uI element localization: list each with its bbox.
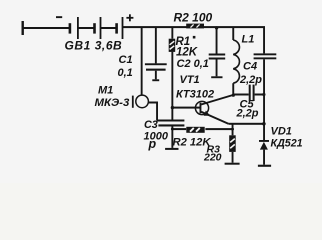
resistor R1 lead top — [171, 27, 173, 39]
svg-text:p: p — [148, 137, 157, 151]
svg-text:МКЭ-3: МКЭ-3 — [95, 97, 130, 109]
battery GB1 cell1 — [69, 23, 72, 33]
capacitor C5 — [249, 85, 251, 101]
ground bar VD1 — [258, 165, 271, 167]
node junction C3 R2 — [171, 128, 174, 131]
capacitor C2 — [209, 54, 226, 56]
wire top supply rail — [123, 26, 265, 28]
wire base to C3 — [171, 108, 173, 119]
capacitor C2 feed — [216, 27, 218, 54]
svg-text:М1: М1 — [98, 85, 113, 97]
svg-text:0,1: 0,1 — [118, 67, 133, 79]
capacitor C4 — [254, 53, 277, 55]
wire battery minus lead — [22, 27, 69, 29]
wire between cells — [101, 27, 116, 29]
svg-text:VT1: VT1 — [180, 74, 200, 86]
wire C3 bottom lead — [171, 127, 173, 148]
svg-text:GB1 3,6В: GB1 3,6В — [65, 39, 123, 53]
node base junction — [171, 106, 174, 109]
wire C2 ground stub — [216, 60, 218, 77]
svg-text:КТ3102: КТ3102 — [176, 88, 214, 100]
wire R2 12K right — [205, 128, 233, 130]
capacitor C1 feed — [155, 27, 157, 63]
svg-text:220: 220 — [203, 151, 222, 163]
wire microphone feed drop — [141, 27, 143, 95]
inductor L1 feed — [232, 27, 234, 40]
node minus polarity label — [56, 16, 62, 18]
resistor R1 — [169, 39, 176, 52]
svg-text:2,2p: 2,2p — [236, 108, 259, 120]
node junction C5 right column — [262, 93, 265, 96]
svg-text:2,2p: 2,2p — [239, 74, 262, 86]
svg-text:VD1: VD1 — [271, 126, 292, 138]
wire between cells — [79, 27, 94, 29]
node junction R3 R2 12K — [231, 128, 234, 131]
resistor R3 — [229, 135, 236, 152]
wire R3 bottom lead — [232, 152, 234, 163]
wire R3 top lead — [232, 125, 234, 136]
transistor VT1 — [195, 101, 208, 114]
node emitter arrow — [204, 111, 211, 116]
svg-text:C4: C4 — [243, 61, 257, 73]
node plus polarity label — [126, 17, 133, 19]
svg-text:L1: L1 — [242, 34, 255, 46]
ground bar C3 — [165, 148, 178, 150]
microphone M1 — [136, 95, 149, 108]
svg-text:C2 0,1: C2 0,1 — [177, 58, 209, 70]
resistor R2 12K — [186, 127, 204, 133]
inductor L1 — [233, 40, 239, 83]
svg-text:С3: С3 — [144, 119, 158, 131]
wire right column C4 to VD1 — [263, 59, 265, 140]
wire emitter horizontal — [228, 123, 264, 125]
wire C1 ground stub — [155, 71, 157, 80]
wire R1 to base — [171, 52, 173, 108]
node junction emitter column — [262, 122, 266, 126]
wire L1 bottom — [232, 83, 234, 95]
ground bar C2 — [211, 76, 222, 78]
wire C5 left — [233, 94, 248, 96]
ground bar C1 — [152, 79, 159, 81]
ground bar R3 — [225, 163, 240, 165]
svg-text:КД521: КД521 — [271, 138, 303, 150]
svg-text:R2 100: R2 100 — [174, 11, 213, 25]
battery GB1 cell2 — [93, 23, 96, 33]
node collector junction — [232, 94, 235, 97]
wire C5 right — [255, 94, 264, 96]
resistor R2 100 — [186, 24, 204, 29]
node left terminal of battery minus — [22, 21, 24, 35]
battery GB1 cell3 — [115, 23, 118, 33]
svg-text:1000: 1000 — [144, 131, 169, 143]
wire collector diagonal — [201, 95, 233, 105]
diode VD1 cathode bar — [259, 140, 269, 142]
wire R2 12K left — [172, 128, 186, 130]
wire base — [172, 107, 199, 109]
wire microphone output — [148, 102, 157, 104]
wire emitter diagonal — [201, 112, 228, 124]
node junction rail C2 — [215, 26, 218, 29]
svg-text:12K: 12K — [176, 47, 198, 59]
diode VD1 — [260, 142, 268, 150]
capacitor C1 — [145, 63, 167, 65]
capacitor C4 drop from rail — [263, 27, 265, 53]
svg-text:C1: C1 — [119, 54, 133, 66]
wire VD1 anode lead — [263, 150, 265, 165]
capacitor C3 — [157, 120, 184, 122]
